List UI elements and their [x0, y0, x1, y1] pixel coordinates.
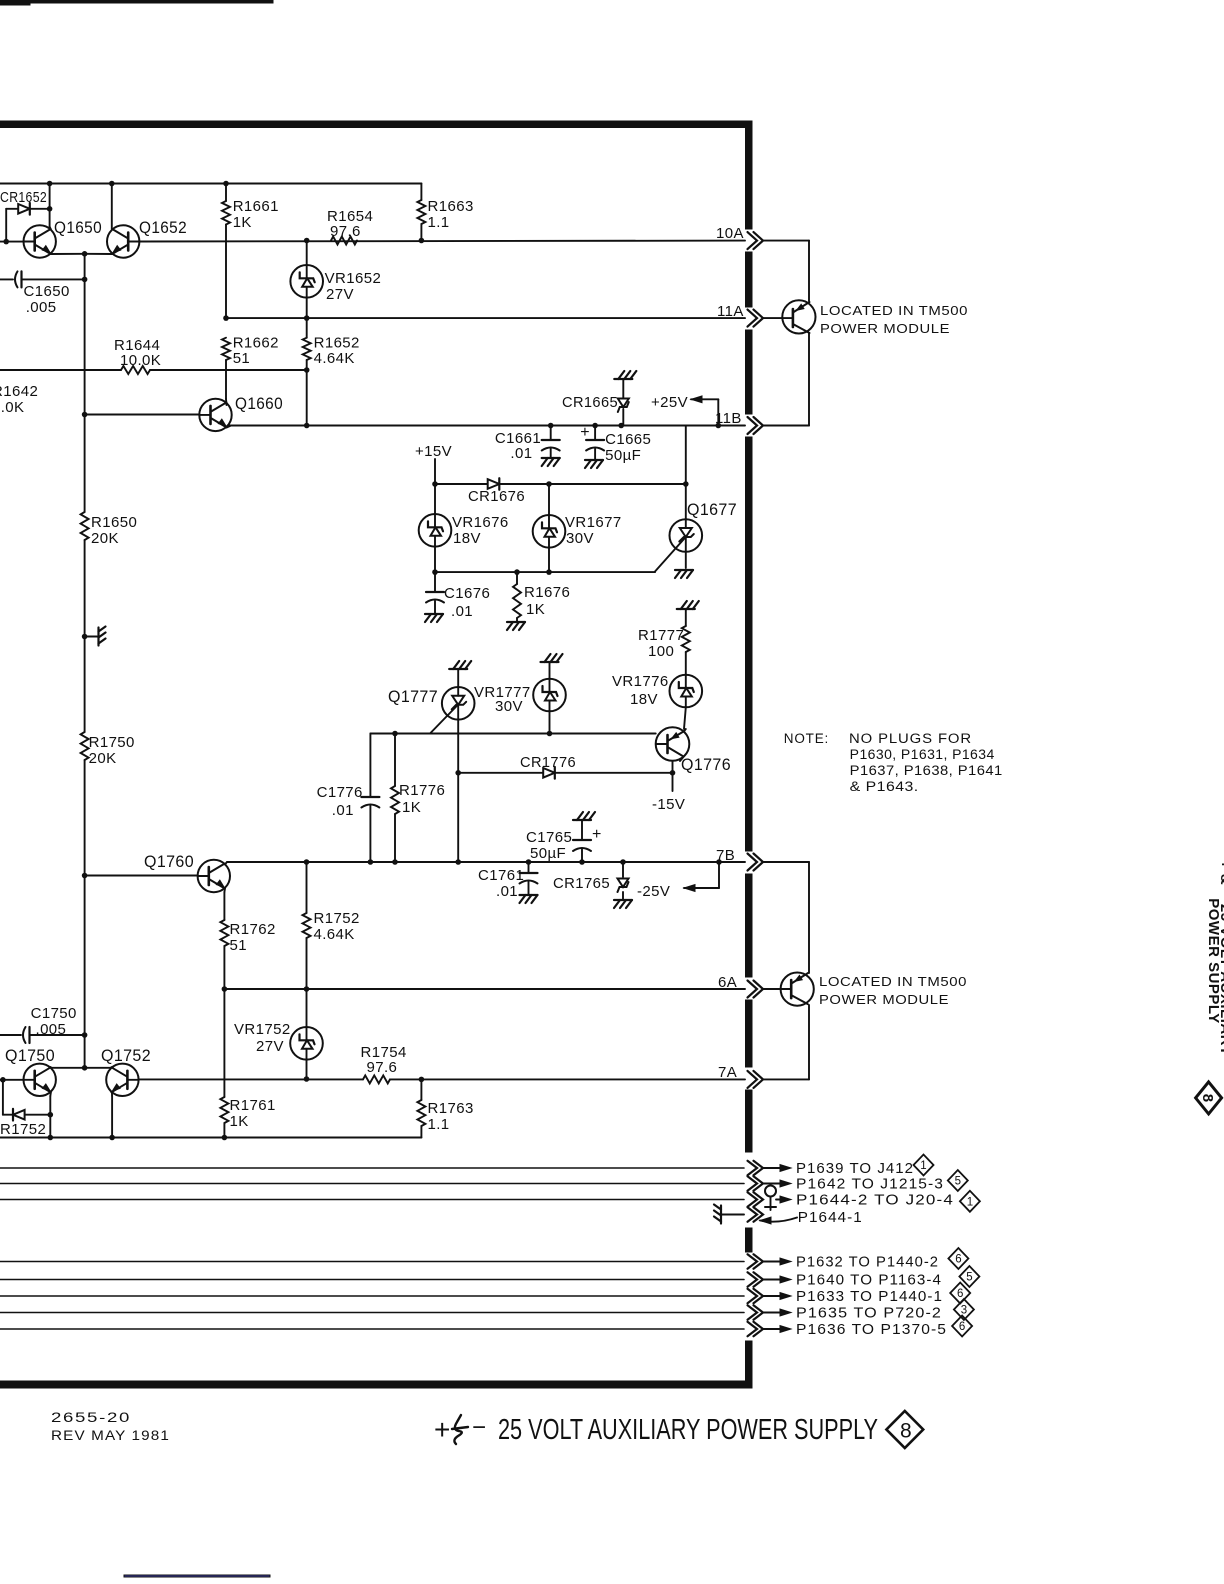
svg-text:5.0K: 5.0K [0, 399, 24, 416]
zener VR1752 27V [234, 989, 323, 1082]
capacitor C1765 50uF [526, 812, 601, 862]
capacitor C1676 .01 [425, 572, 490, 622]
svg-text:1K: 1K [526, 601, 545, 618]
svg-text:CR1665: CR1665 [562, 394, 618, 411]
svg-text:P1636 TO P1370-5: P1636 TO P1370-5 [796, 1322, 947, 1338]
svg-text:P1633 TO P1440-1: P1633 TO P1440-1 [796, 1289, 943, 1305]
wire Q1750 base from edge [0, 1077, 24, 1083]
ground stub left vertical [82, 627, 106, 646]
resistor R1750 20K [81, 732, 135, 767]
transistor in TM500 module (lower) [763, 862, 967, 1079]
svg-text:7A: 7A [718, 1064, 737, 1081]
svg-text:R1776: R1776 [399, 782, 445, 799]
resistor R1776 1K [391, 734, 445, 863]
svg-text:P1642 TO J1215-3: P1642 TO J1215-3 [796, 1177, 944, 1193]
svg-text:97.6: 97.6 [367, 1059, 398, 1076]
svg-text:R1761: R1761 [230, 1097, 276, 1114]
svg-text:Q1760: Q1760 [144, 852, 194, 871]
svg-text:C1776: C1776 [317, 784, 363, 801]
diode CR1676 [432, 478, 688, 505]
transistor Q1750 [5, 1046, 56, 1096]
svg-text:R1752: R1752 [314, 910, 360, 927]
svg-text:R1777: R1777 [638, 627, 684, 644]
svg-text:Q1750: Q1750 [5, 1046, 55, 1065]
svg-text:R1762: R1762 [230, 921, 276, 938]
svg-text:5: 5 [955, 1176, 961, 1188]
svg-text:R1752: R1752 [0, 1121, 46, 1138]
wire 7A line y=1079 [139, 1077, 745, 1083]
resistor R1761 1K [220, 989, 275, 1138]
capacitor C1661 .01 [495, 423, 560, 466]
transistor Q1777 [388, 661, 475, 862]
svg-text:P1644-1: P1644-1 [798, 1210, 863, 1226]
capacitor C1761 .01 [478, 862, 538, 903]
wire Q1750 emitter vertical [49, 1096, 51, 1138]
zener CR1765 [553, 862, 632, 908]
svg-text:1: 1 [920, 1160, 926, 1172]
svg-text:6: 6 [955, 1254, 961, 1266]
svg-text:R1676: R1676 [524, 584, 570, 601]
svg-text:-25V: -25V [637, 883, 670, 900]
capacitor C1750 .005 [0, 1005, 87, 1043]
svg-text:LOCATED IN TM500: LOCATED IN TM500 [820, 303, 968, 318]
transistor Q1677 [655, 426, 737, 579]
resistor R1752 4.64K [303, 862, 360, 989]
svg-text:+15V: +15V [415, 443, 452, 460]
resistor R1763 1.1 [417, 1079, 473, 1137]
svg-text:R1661: R1661 [233, 198, 279, 215]
svg-text:R1750: R1750 [89, 734, 135, 751]
svg-text:Q1677: Q1677 [687, 500, 737, 519]
svg-text:25 VOLT AUXILIARY POWER SUPPLY: 25 VOLT AUXILIARY POWER SUPPLY [498, 1414, 878, 1446]
resistor R1650 20K [81, 512, 138, 547]
svg-text:.01: .01 [332, 802, 354, 819]
diode CR1652 [0, 184, 52, 242]
zener VR1777 30V [474, 654, 566, 734]
svg-text:NOTE:: NOTE: [784, 731, 829, 746]
svg-text:R1652: R1652 [314, 335, 360, 352]
svg-text:Q1652: Q1652 [139, 218, 187, 237]
svg-text:VR1652: VR1652 [325, 270, 382, 287]
svg-text:−: − [472, 1414, 486, 1441]
svg-text:51: 51 [230, 937, 248, 954]
wire P1640 TO P1163-4 [0, 1266, 979, 1289]
top edge scan line [0, 0, 273, 5]
resistor R1642 5.0K label [0, 383, 38, 416]
node +15V [415, 443, 452, 484]
svg-text:POWER SUPPLY: POWER SUPPLY [1205, 898, 1222, 1023]
svg-text:NO PLUGS FOR: NO PLUGS FOR [849, 731, 972, 746]
diode CR1752 [0, 1080, 53, 1138]
svg-text:11B: 11B [715, 410, 742, 427]
svg-text:Q1776: Q1776 [681, 755, 731, 774]
svg-text:7B: 7B [716, 847, 735, 864]
svg-text:6: 6 [959, 1321, 965, 1333]
svg-text:C1650: C1650 [24, 283, 70, 300]
zener VR1676 18V [419, 484, 509, 572]
svg-text:50µF: 50µF [605, 447, 641, 464]
svg-text:VR1676: VR1676 [452, 514, 509, 531]
transistor Q1760 [144, 852, 230, 892]
svg-text:+25V: +25V [651, 394, 688, 411]
svg-text:POWER MODULE: POWER MODULE [820, 321, 950, 336]
wire -25V rail y=862 (7B) [227, 859, 745, 865]
resistor R1777 100 [638, 601, 699, 675]
svg-text:18V: 18V [453, 530, 481, 547]
svg-text:R1662: R1662 [233, 335, 279, 352]
svg-text:R1642: R1642 [0, 383, 38, 400]
svg-text:+: + [580, 424, 589, 441]
resistor R1662 51 [222, 335, 279, 400]
node -25V arrow [637, 862, 719, 900]
svg-text:1K: 1K [233, 214, 252, 231]
svg-text:Q1650: Q1650 [54, 218, 102, 237]
wire Q1650 base from edge [0, 239, 24, 245]
transistor Q1776 [656, 727, 731, 774]
svg-text:1.1: 1.1 [428, 214, 450, 231]
wire Q1660 base [82, 412, 200, 418]
svg-text:C1665: C1665 [605, 431, 651, 448]
wire main left vertical x=84 [84, 254, 86, 1035]
resistor R1661 1K [222, 184, 279, 319]
svg-text:+: + [592, 826, 601, 843]
title +&-25 VOLT AUXILIARY POWER SUPPLY [434, 1411, 923, 1448]
wire P1636 TO P1370-5 [0, 1316, 972, 1339]
svg-text:2655-20: 2655-20 [51, 1410, 131, 1425]
svg-text:30V: 30V [566, 530, 594, 547]
bottom blue scan line [124, 1575, 270, 1577]
node 11B connector [715, 410, 763, 434]
svg-text:CR1652: CR1652 [0, 189, 47, 206]
node 10A connector [716, 225, 763, 249]
svg-text:Q1660: Q1660 [235, 394, 283, 413]
svg-text:10.0K: 10.0K [120, 352, 161, 369]
transistor Q1652 [85, 184, 745, 258]
wire Q1776 base line y=733.5 [370, 731, 655, 737]
node emitter junction Q1650/Q1652 [82, 251, 88, 257]
tab text vertical [1205, 860, 1224, 1056]
svg-text:VR1752: VR1752 [234, 1021, 291, 1038]
svg-text:1K: 1K [230, 1113, 249, 1130]
wire collector link y=1067.8 [51, 1035, 111, 1071]
svg-text:50µF: 50µF [530, 845, 566, 862]
svg-text:5: 5 [966, 1272, 972, 1284]
svg-text:-15V: -15V [652, 796, 685, 813]
wire bottom rail y=1137.5 [0, 1135, 421, 1141]
svg-text:18V: 18V [630, 691, 658, 708]
wire 11B line [228, 425, 745, 427]
svg-text:8: 8 [900, 1420, 912, 1443]
svg-text:VR1776: VR1776 [612, 673, 669, 690]
svg-text:.005: .005 [26, 299, 57, 316]
svg-text:REV MAY 1981: REV MAY 1981 [51, 1428, 170, 1443]
resistor R1644 10.0K [0, 337, 307, 374]
svg-text:1.1: 1.1 [428, 1116, 450, 1133]
svg-text:C1765: C1765 [526, 829, 572, 846]
svg-text:R1763: R1763 [428, 1100, 474, 1117]
svg-text:CR1765: CR1765 [553, 875, 610, 892]
wire P1642 TO J1215-3 [0, 1170, 968, 1193]
svg-text:4.64K: 4.64K [314, 926, 355, 943]
svg-text:P1640 TO P1163-4: P1640 TO P1163-4 [796, 1273, 942, 1289]
diode CR1776 [458, 754, 675, 779]
wire P1635 TO P720-2 [0, 1299, 974, 1322]
svg-text:20K: 20K [91, 530, 119, 547]
zener VR1652 27V [290, 238, 381, 338]
svg-text:20K: 20K [89, 750, 117, 767]
wire 6A line y=989 [222, 986, 745, 992]
svg-text:.01: .01 [510, 445, 532, 462]
zener VR1677 30V [533, 484, 622, 572]
svg-text:6A: 6A [718, 974, 737, 991]
node 7A connector [718, 1064, 763, 1088]
svg-text:P1635 TO P720-2: P1635 TO P720-2 [796, 1306, 942, 1322]
wire P1633 TO P1440-1 [0, 1283, 970, 1306]
svg-text:+: + [434, 1414, 450, 1445]
svg-text:C1750: C1750 [31, 1005, 77, 1022]
svg-text:VR1677: VR1677 [565, 514, 622, 531]
svg-text:CR1676: CR1676 [468, 488, 525, 505]
svg-text:P1630, P1631, P1634: P1630, P1631, P1634 [850, 747, 995, 762]
resistor R1654 97.6 [327, 208, 373, 245]
tab diamond 8 [1196, 1082, 1222, 1114]
svg-text:POWER MODULE: POWER MODULE [819, 992, 949, 1007]
svg-text:Q1752: Q1752 [101, 1046, 151, 1065]
resistor R1676 1K [507, 572, 570, 630]
svg-text:R1663: R1663 [428, 198, 474, 215]
svg-text:P1637, P1638, P1641: P1637, P1638, P1641 [850, 763, 1003, 778]
wire P1644-1 ground return [714, 1205, 863, 1227]
svg-text:CR1776: CR1776 [520, 754, 576, 771]
svg-text:1K: 1K [402, 799, 421, 816]
svg-text:Q1777: Q1777 [388, 687, 438, 706]
node -15V [652, 773, 685, 813]
wire top rail y=183 [0, 181, 421, 187]
resistor R1754 97.6 [361, 1044, 407, 1083]
svg-text:8: 8 [1199, 1094, 1216, 1102]
resistor R1663 1.1 [417, 184, 473, 244]
svg-text:C1676: C1676 [444, 585, 490, 602]
svg-text:.01: .01 [451, 603, 473, 620]
capacitor C1650 [0, 271, 87, 316]
svg-text:P1644-2 TO J20-4: P1644-2 TO J20-4 [796, 1193, 954, 1209]
note text block [784, 731, 1003, 794]
wire P1632 TO P1440-2 [0, 1248, 968, 1271]
svg-text:100: 100 [648, 643, 674, 660]
node 7B connector [716, 847, 763, 871]
wire Q1760 base [82, 873, 198, 879]
resistor R1762 51 [220, 892, 275, 989]
svg-text:4.64K: 4.64K [314, 350, 355, 367]
transistor in TM500 module (upper) [763, 241, 968, 426]
svg-text:27V: 27V [326, 286, 354, 303]
capacitor C1776 .01 [317, 734, 380, 863]
transistor Q1650 [24, 218, 103, 258]
svg-text:30V: 30V [495, 698, 523, 715]
zener CR1665 [562, 371, 636, 428]
svg-text:27V: 27V [256, 1038, 284, 1055]
svg-text:11A: 11A [717, 303, 744, 320]
svg-text:C1761: C1761 [478, 867, 524, 884]
node 6A connector [718, 974, 763, 998]
wire 11A line [223, 315, 745, 321]
footer part number 2655-20 [51, 1410, 170, 1443]
svg-text:51: 51 [233, 350, 251, 367]
svg-text:6: 6 [957, 1288, 963, 1300]
wire P1644-2 TO J20-4 [0, 1186, 980, 1212]
svg-text:& P1643.: & P1643. [850, 779, 919, 794]
svg-text:P1639 TO J412: P1639 TO J412 [796, 1161, 914, 1177]
transistor Q1752 [101, 1046, 151, 1138]
svg-text:LOCATED IN TM500: LOCATED IN TM500 [819, 974, 967, 989]
wire P1639 TO J412 [0, 1155, 934, 1178]
svg-text:R1650: R1650 [91, 514, 137, 531]
capacitor C1665 50uF [580, 423, 651, 468]
svg-text:.01: .01 [496, 883, 518, 900]
zener VR1776 18V [612, 673, 702, 729]
schematic border frame [0, 121, 752, 1388]
transistor Q1660 [199, 394, 283, 431]
wire zener bottom rail y=572 [432, 569, 655, 575]
svg-text:10A: 10A [716, 225, 744, 242]
svg-text:1: 1 [967, 1196, 973, 1208]
node +25V arrow [651, 394, 721, 428]
node 11A connector [717, 303, 763, 327]
svg-text:P1632 TO P1440-2: P1632 TO P1440-2 [796, 1255, 939, 1271]
resistor R1652 4.64K [303, 335, 360, 429]
